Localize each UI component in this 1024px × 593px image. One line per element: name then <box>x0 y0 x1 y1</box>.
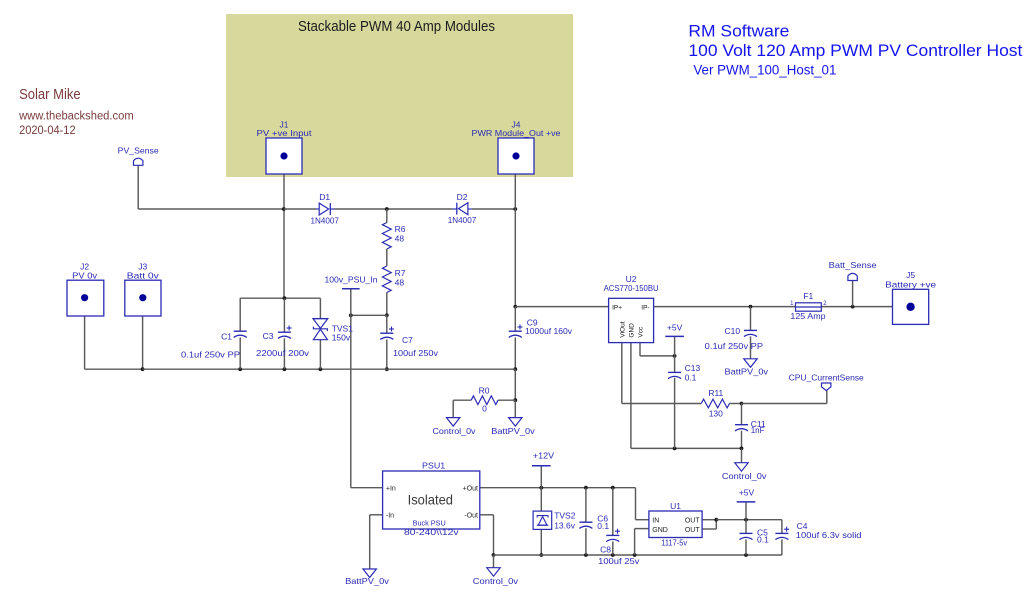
svg-text:BattPV_0v: BattPV_0v <box>725 366 769 376</box>
label C7 <box>393 335 439 358</box>
svg-text:48: 48 <box>395 277 405 287</box>
junction node J4 <box>513 207 517 211</box>
label U1 <box>661 501 687 547</box>
label TVS1 <box>332 323 354 342</box>
connector J4 <box>498 138 534 174</box>
label BattPV_0v C10 <box>725 366 769 376</box>
svg-text:48: 48 <box>395 234 405 244</box>
connector J2 <box>67 280 104 316</box>
svg-text:TVS2: TVS2 <box>554 510 576 520</box>
svg-text:+Out: +Out <box>463 485 478 492</box>
label Control_0v PSU1 <box>473 576 519 586</box>
resistor R6 <box>382 223 391 250</box>
capacitor C6 <box>579 522 592 528</box>
wire C11 leads <box>741 404 743 449</box>
junction C5 bottom <box>744 553 748 557</box>
svg-text:100uf 250v: 100uf 250v <box>393 348 439 358</box>
svg-text:R7: R7 <box>395 268 406 278</box>
TVS diode TVS1 <box>313 319 328 340</box>
connector J5 <box>893 289 929 324</box>
svg-text:0.1: 0.1 <box>597 521 609 531</box>
svg-text:80-240\\12v: 80-240\\12v <box>404 527 459 537</box>
svg-text:Ver PWM_100_Host_01: Ver PWM_100_Host_01 <box>693 63 836 78</box>
wire U1 GND down <box>635 529 649 555</box>
svg-text:1N4007: 1N4007 <box>448 215 477 225</box>
wire TVS2 top lead <box>540 488 542 511</box>
ground BattPV_0v at C9 <box>509 418 522 427</box>
svg-text:150v: 150v <box>332 333 351 343</box>
junction 100v_PSU_In stem <box>349 313 353 317</box>
title Stackable PWM 40 Amp Modules <box>298 19 495 35</box>
wire U2 Vcc to +5V stem <box>640 343 675 356</box>
wire C1 C3 TVS1 top rail <box>240 297 320 299</box>
svg-text:1nF: 1nF <box>751 426 765 435</box>
svg-text:0.1: 0.1 <box>757 534 769 544</box>
author url <box>18 110 134 122</box>
IC U1 1117-5v <box>649 511 702 538</box>
svg-text:0: 0 <box>482 404 487 414</box>
capacitor C7 <box>380 327 394 340</box>
wire C6 leads <box>585 488 587 555</box>
svg-text:PWR Module_Out +ve: PWR Module_Out +ve <box>472 128 561 138</box>
ground BattPV_0v at PSU1 <box>363 569 376 578</box>
net flag Batt_Sense <box>829 260 877 280</box>
junction Vcc +5V node <box>673 354 677 358</box>
connector J3 <box>125 280 161 316</box>
junction +5V C5 node <box>744 518 748 522</box>
svg-text:PV 0v: PV 0v <box>72 271 98 281</box>
svg-text:Control_0v: Control_0v <box>433 426 477 436</box>
wire C1 bottom lead <box>239 337 241 369</box>
svg-text:100 Volt 120 Amp PWM PV Contro: 100 Volt 120 Amp PWM PV Controller Host <box>688 41 1022 60</box>
svg-text:IN: IN <box>652 517 659 524</box>
junction J3 rail <box>141 367 145 371</box>
svg-text:+5V: +5V <box>739 487 755 497</box>
label J3 <box>127 261 160 280</box>
wire +12V power stem <box>540 466 542 488</box>
junction R7 node <box>385 313 389 317</box>
svg-text:ViOut: ViOut <box>619 321 626 337</box>
svg-text:Stackable PWM 40 Amp Modules: Stackable PWM 40 Amp Modules <box>298 19 495 35</box>
wire J2 to 0v rail <box>85 316 143 369</box>
svg-text:Control_0v: Control_0v <box>473 576 519 586</box>
wire C7 to rail 0v <box>386 339 388 369</box>
wire control node to Control_0v ground <box>741 448 743 462</box>
wire R0 left lead to Control_0v <box>453 400 471 417</box>
svg-text:R0: R0 <box>479 385 490 395</box>
svg-text:U1: U1 <box>670 501 681 511</box>
wire node 100v_PSU_In horizontal <box>351 314 387 316</box>
label R11 <box>708 388 723 418</box>
svg-text:2200uf 200v: 2200uf 200v <box>256 348 310 358</box>
label C11 <box>751 419 766 435</box>
wire J1 to node PV <box>283 174 285 209</box>
junction node PSU_top <box>385 207 389 211</box>
wire control node ground stem <box>493 555 495 568</box>
svg-text:R6: R6 <box>395 224 406 234</box>
label J2 <box>72 261 98 280</box>
wire PSU1 +Out +12v rail <box>480 487 636 489</box>
label Control_0v C11 <box>722 471 768 481</box>
junction C8 bottom <box>611 553 615 557</box>
label J1 <box>257 120 313 139</box>
svg-text:1117-5v: 1117-5v <box>661 538 687 548</box>
wire TVS1 bottom lead <box>319 340 321 370</box>
capacitor C5 <box>740 533 753 539</box>
svg-text:OUT: OUT <box>685 517 701 524</box>
label C1 <box>181 331 240 359</box>
label Control_0v R0 <box>433 426 477 436</box>
junction node R0 <box>513 398 517 402</box>
wire R7 to node 100v_PSU_In <box>386 293 388 316</box>
author Solar Mike <box>19 87 81 103</box>
wire IP+ node to U2 <box>515 306 608 308</box>
wire TVS2 bottom lead <box>540 529 542 555</box>
wire rail to node R0 <box>514 369 516 400</box>
wire control 0v rail <box>494 554 782 556</box>
resistor R7 <box>382 266 391 293</box>
svg-text:-In: -In <box>386 512 394 519</box>
wire node down to C7 <box>386 315 388 333</box>
svg-text:+5V: +5V <box>667 322 683 332</box>
junction +12V stem <box>539 486 543 490</box>
svg-text:2020-04-12: 2020-04-12 <box>19 125 76 137</box>
label D2 <box>448 192 477 225</box>
connector J1 <box>266 138 302 174</box>
svg-text:1000uf 160v: 1000uf 160v <box>525 326 573 336</box>
svg-text:Isolated: Isolated <box>408 492 453 508</box>
ground Control_0v at C11 <box>735 463 748 472</box>
wire TVS1 top lead <box>319 298 321 318</box>
wire node PV to D1 anode <box>284 208 316 210</box>
svg-text:OUT: OUT <box>685 527 701 534</box>
wire C9 to rail 0v <box>514 337 516 369</box>
wire C8 leads <box>612 488 614 555</box>
resistor R11 <box>701 399 729 408</box>
resistor R0 <box>471 396 498 405</box>
capacitor C9 <box>509 325 523 338</box>
capacitor C4 <box>775 527 789 540</box>
svg-text:0.1uf 250v PP: 0.1uf 250v PP <box>181 349 240 359</box>
svg-text:-Out: -Out <box>464 512 478 519</box>
capacitor C8 <box>606 529 620 542</box>
svg-text:Solar Mike: Solar Mike <box>19 87 81 103</box>
net flag PV_Sense <box>118 145 159 165</box>
junction C9 bottom rail <box>513 367 517 371</box>
svg-text:BattPV_0v: BattPV_0v <box>491 426 535 436</box>
wire C5 leads <box>745 520 747 555</box>
junction C6 bottom <box>584 553 588 557</box>
power +5V at U1 <box>737 487 756 502</box>
junction node PV <box>282 207 286 211</box>
svg-text:Control_0v: Control_0v <box>722 471 768 481</box>
label D1 <box>310 192 339 226</box>
svg-text:GND: GND <box>652 527 668 534</box>
label R0 <box>479 385 490 413</box>
capacitor C11 <box>735 425 748 431</box>
junction C13 bottom <box>673 447 677 451</box>
svg-text:13.6v: 13.6v <box>554 521 576 531</box>
label U2 <box>604 274 659 293</box>
wire IP+ node down to C9 <box>514 307 516 332</box>
label J5 <box>885 270 936 289</box>
svg-text:PSU1: PSU1 <box>422 460 445 470</box>
label R6 <box>395 224 406 244</box>
wire C4 bottom lead <box>781 539 783 555</box>
svg-text:RM Software: RM Software <box>688 22 789 41</box>
wire J4 down to node J4 <box>514 174 516 209</box>
svg-text:R11: R11 <box>708 388 723 398</box>
wire node R0 to BattPV_0v ground <box>514 400 516 417</box>
junction TVS2 bottom <box>539 553 543 557</box>
svg-text:Batt 0v: Batt 0v <box>127 271 160 281</box>
label C9 <box>525 317 573 336</box>
svg-text:+12V: +12V <box>533 450 555 460</box>
diode D1 <box>316 203 335 215</box>
junction C8 top <box>611 486 615 490</box>
junction C3 bottom <box>283 367 287 371</box>
svg-text:IP+: IP+ <box>612 304 622 311</box>
wire J3 to 0v rail <box>142 316 144 369</box>
wire node PV down to C3 rail <box>283 209 285 298</box>
title RM Software <box>688 22 789 41</box>
ground Control_0v at PSU1 -Out <box>487 568 500 577</box>
svg-text:Battery +ve: Battery +ve <box>885 279 936 289</box>
label R7 <box>395 268 406 288</box>
wire 0v rail left section <box>143 368 516 370</box>
svg-text:www.thebackshed.com: www.thebackshed.com <box>18 110 134 122</box>
junction C1 bottom <box>238 367 242 371</box>
label C13 <box>685 363 701 382</box>
svg-text:C3: C3 <box>263 331 274 341</box>
svg-text:100v_PSU_In: 100v_PSU_In <box>325 274 378 284</box>
svg-text:130: 130 <box>709 408 723 418</box>
power +5V at U2 <box>665 322 684 336</box>
junction Batt_Sense <box>851 305 855 309</box>
khaki module block <box>226 14 573 177</box>
junction C6 top <box>584 486 588 490</box>
wire R0 right lead <box>498 399 515 401</box>
svg-text:1N4007: 1N4007 <box>310 216 339 226</box>
capacitor C10 <box>744 330 757 336</box>
PSU module PSU1 <box>383 471 480 537</box>
wire node CurrentSense to flag <box>742 391 827 404</box>
TVS diode TVS2 <box>533 511 552 529</box>
svg-text:+In: +In <box>386 485 396 492</box>
label J4 <box>472 120 561 139</box>
junction U1 GND rail <box>633 553 637 557</box>
label C4 <box>796 521 862 540</box>
wire U1 OUT jog <box>702 520 716 529</box>
svg-text:F1: F1 <box>803 291 813 301</box>
label C3 <box>256 331 310 358</box>
capacitor C3 <box>278 326 292 339</box>
wire +5v rail to C4 <box>716 520 782 534</box>
ground Control_0v at R0 <box>447 418 460 427</box>
junction C10 top <box>749 305 753 309</box>
wire 100v_PSU_In power stem down to PSU1 <box>351 289 383 488</box>
label BattPV_0v PSU1 <box>345 576 390 586</box>
wire node J4 down to U2 IP+ node <box>514 209 516 307</box>
svg-text:C1: C1 <box>221 331 232 341</box>
svg-text:C8: C8 <box>600 544 611 554</box>
svg-text:PV +ve Input: PV +ve Input <box>257 128 313 138</box>
label C10 <box>705 326 764 351</box>
wire node PSU_top to D2 cathode <box>387 208 453 210</box>
net flag CPU_CurrentSense <box>789 372 864 390</box>
junction -Out control node <box>492 553 496 557</box>
svg-text:PV_Sense: PV_Sense <box>118 145 159 155</box>
wire +5V bar stem and C13 leads <box>674 336 676 448</box>
wire R6 top lead <box>386 209 388 223</box>
svg-text:0.1uf 250v PP: 0.1uf 250v PP <box>705 341 764 351</box>
svg-text:C10: C10 <box>725 326 741 336</box>
svg-text:IP-: IP- <box>641 304 649 311</box>
junction C7 bottom <box>385 367 389 371</box>
wire PSU1 -Out to control rail <box>480 515 494 555</box>
power +12V <box>532 450 554 465</box>
junction C11 bottom control node <box>740 447 744 451</box>
svg-text:C7: C7 <box>402 335 413 345</box>
svg-text:Batt_Sense: Batt_Sense <box>829 260 877 270</box>
svg-text:GND: GND <box>628 323 635 338</box>
wire C3 top lead <box>283 298 285 332</box>
wire U2 GND down to control rail <box>631 343 742 449</box>
IC U2 ACS770 <box>609 298 654 342</box>
wire +5V power stem U1 <box>745 502 747 520</box>
label PSU1 <box>422 460 445 470</box>
wire PV_Sense stem <box>138 165 284 209</box>
label TVS2 <box>554 510 576 530</box>
wire U2 ViOut down and to R11 <box>622 343 701 404</box>
wire PSU1 -In to BattPV_0v <box>370 515 383 569</box>
svg-text:100uf 25v: 100uf 25v <box>598 556 640 566</box>
fuse F1 <box>790 301 827 311</box>
title Ver PWM_100_Host_01 <box>693 63 836 78</box>
wire C3 bottom lead <box>283 338 285 369</box>
svg-text:BattPV_0v: BattPV_0v <box>345 576 390 586</box>
wire D2 anode to node J4 <box>472 208 516 210</box>
capacitor C13 <box>668 372 681 378</box>
author date <box>19 125 76 137</box>
ground BattPV_0v at C10 <box>744 359 757 368</box>
capacitor C1 <box>234 331 247 337</box>
wire F1 to J5 <box>821 306 892 308</box>
label C5 <box>757 528 769 545</box>
wire U2 IP- to F1 <box>654 306 796 308</box>
svg-text:Vcc: Vcc <box>638 326 645 338</box>
junction C3 top <box>283 296 287 300</box>
svg-text:D1: D1 <box>319 192 330 202</box>
label C6 <box>597 513 609 531</box>
label C8 <box>598 544 640 566</box>
wire Batt_Sense stem <box>852 281 854 307</box>
svg-text:100uf 6.3v solid: 100uf 6.3v solid <box>796 530 862 540</box>
svg-text:ACS770-150BU: ACS770-150BU <box>604 283 659 293</box>
wire R11 right to node CurrentSense <box>730 403 742 405</box>
junction TVS1 bottom <box>319 367 323 371</box>
label F1 <box>790 291 825 321</box>
wire C1 top lead <box>239 298 241 331</box>
diode D2 <box>452 203 472 215</box>
svg-text:CPU_CurrentSense: CPU_CurrentSense <box>789 372 864 382</box>
junction node CurrentSense <box>740 402 744 406</box>
label BattPV_0v C9 <box>491 426 535 436</box>
svg-text:125 Amp: 125 Amp <box>790 311 825 321</box>
power port 100v_PSU_In <box>325 274 378 288</box>
wire +12v rail down to U1 IN <box>636 488 649 520</box>
junction U2 IP+ node <box>513 305 517 309</box>
title 100 Volt 120 Amp PWM PV Controller Host <box>688 41 1022 60</box>
junction U1 OUT <box>714 518 718 522</box>
svg-text:0.1: 0.1 <box>685 372 697 382</box>
svg-text:D2: D2 <box>457 192 468 202</box>
wire D1 cathode to node PSU_top <box>335 208 387 210</box>
wire C10 leads <box>750 307 752 359</box>
wire R6-R7 link <box>386 249 388 266</box>
